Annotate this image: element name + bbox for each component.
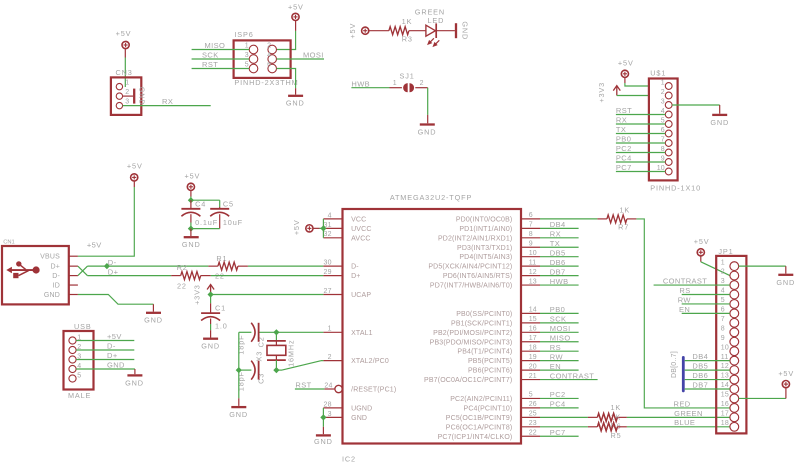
label PB0 (U$1)	[616, 135, 631, 144]
svg-text:X3: X3	[254, 351, 263, 362]
label RX (IC2)	[550, 230, 561, 239]
svg-text:4: 4	[267, 52, 271, 59]
wire net CONTRAST (JP1 pin 3)	[654, 284, 730, 286]
svg-text:30: 30	[324, 260, 332, 267]
svg-text:GND: GND	[710, 118, 729, 127]
ground symbol (CN1)	[144, 304, 163, 325]
svg-text:GND: GND	[201, 342, 220, 351]
junction (crystal/XTAL2)	[273, 367, 279, 373]
wire +3V3 to U$1 pin 2	[617, 95, 649, 97]
svg-text:PD3(INT3/TXD1): PD3(INT3/TXD1)	[457, 245, 512, 252]
label TX (IC2)	[550, 239, 560, 248]
label PC2 (IC2)	[550, 390, 566, 399]
svg-text:2: 2	[721, 269, 725, 276]
svg-text:PB0: PB0	[550, 305, 565, 314]
svg-text:18pF: 18pF	[237, 335, 246, 355]
IC2 pin 20 (PB6(PCINT6))	[468, 363, 540, 374]
IC2 pin 27 (UCAP)	[323, 288, 371, 299]
svg-text:VCC: VCC	[351, 216, 366, 223]
svg-text:22: 22	[177, 282, 187, 291]
ground symbol (ISP6)	[286, 88, 305, 107]
power +5V supply (IC2 VCC)	[292, 219, 320, 235]
resistor R6 zigzag overlay	[597, 413, 617, 421]
wire net HWB (to SJ1)	[351, 87, 402, 89]
svg-text:JP1: JP1	[718, 247, 733, 256]
crystal X3 16MHz	[254, 332, 295, 370]
svg-text:12: 12	[721, 363, 729, 370]
IC2 pin 12 (PD6(INT6/AIN5/RTS))	[443, 269, 540, 280]
wire net UCAP	[211, 294, 324, 296]
svg-text:7: 7	[529, 222, 533, 229]
IC2 pin 16 (PB2(PDI/MOSI/PCINT2))	[433, 326, 540, 337]
label BLUE	[674, 418, 695, 427]
wire +5V to C4/C5	[191, 197, 220, 208]
label DB7 (IC2)	[550, 267, 566, 276]
svg-text:MALE: MALE	[68, 391, 91, 400]
label D+	[108, 267, 119, 276]
svg-text:GND: GND	[107, 361, 125, 370]
svg-text:PC7: PC7	[550, 428, 566, 437]
label SCK	[202, 51, 219, 60]
IC2 pin 24 (/RESET(PC1)) with bubble	[324, 382, 396, 393]
label D-	[108, 258, 117, 267]
svg-text:2: 2	[125, 89, 129, 96]
svg-text:PC7(ICP1/INT4/CLKO): PC7(ICP1/INT4/CLKO)	[438, 434, 513, 441]
svg-text:PD4(INT5/AIN3): PD4(INT5/AIN3)	[459, 254, 512, 261]
wire ISP6 pin 6 to GND	[277, 69, 296, 89]
label EN (IC2)	[550, 362, 561, 371]
svg-text:18: 18	[529, 344, 537, 351]
svg-text:PD1(INT1/AIN0): PD1(INT1/AIN0)	[459, 226, 512, 233]
svg-text:IC2: IC2	[342, 455, 356, 464]
svg-text:PD6(INT6/AIN5/RTS): PD6(INT6/AIN5/RTS)	[443, 273, 512, 280]
wire D- (USB pin 2)	[76, 349, 134, 351]
wire net PC2 (U$1 pin 8)	[616, 152, 665, 154]
wire net RST (IC2 /RESET)	[295, 388, 325, 390]
IC2 pin 21 (PB7(OC0A/OC1C/PCINT7))	[424, 373, 540, 384]
IC2 pin 29 (D+)	[323, 269, 360, 280]
connector CN1 (USB)	[2, 240, 78, 305]
ground symbol (CN3 pin 2)	[123, 87, 147, 106]
wire net BLUE (to JP1 pin 18)	[627, 426, 730, 428]
label GND (USB)	[107, 361, 125, 370]
svg-text:GND: GND	[44, 292, 60, 299]
svg-text:MOSI: MOSI	[303, 51, 324, 60]
svg-text:15: 15	[529, 316, 537, 323]
IC2 pin 17 (PB3(PDO/MISO/PCINT3))	[430, 335, 540, 346]
label MISO	[205, 41, 226, 50]
label RST (U$1)	[616, 106, 632, 115]
svg-text:D+: D+	[108, 267, 119, 276]
IC2 pin 13 (PD7(INT7/HWB/AIN6/T0))	[430, 278, 540, 289]
svg-text:12: 12	[529, 269, 537, 276]
svg-text:1: 1	[125, 80, 129, 87]
wire net SCK (IC2)	[540, 322, 579, 324]
IC2 pin 22 (PC7(ICP1/INT4/CLKO))	[438, 429, 540, 440]
svg-text:CONTRAST: CONTRAST	[663, 276, 707, 285]
svg-text:1K: 1K	[402, 17, 413, 26]
svg-text:26: 26	[529, 401, 537, 408]
svg-text:SJ1: SJ1	[400, 71, 415, 80]
wire R3 to LED	[409, 30, 426, 32]
IC2 pin 26 (PC4(PCINT10))	[464, 401, 540, 412]
power +5V supply (CN3)	[116, 29, 132, 57]
label DB4 (JP1)	[692, 352, 708, 361]
svg-text:PC2: PC2	[550, 390, 566, 399]
label DB6 (IC2)	[550, 258, 566, 267]
wire U$1 pin 3 to GND	[672, 104, 720, 106]
connector CN3	[111, 68, 141, 115]
IC2 pin 30 (D-)	[323, 260, 359, 271]
wire net GREEN (to JP1 pin 17)	[627, 416, 730, 418]
IC2 pin 8 (PD2(INT2/AIN1/RXD1))	[438, 231, 540, 242]
label DB5 (JP1)	[692, 362, 708, 371]
svg-text:C1: C1	[215, 303, 226, 312]
svg-text:C5: C5	[223, 199, 234, 208]
ground symbol (USB MALE)	[125, 375, 144, 387]
wire net EN (JP1 pin 6)	[682, 312, 730, 314]
svg-text:CONTRAST: CONTRAST	[550, 371, 594, 380]
svg-text:29: 29	[324, 269, 332, 276]
svg-text:22: 22	[529, 429, 537, 436]
svg-text:DB6: DB6	[692, 371, 708, 380]
svg-text:7: 7	[721, 316, 725, 323]
IC2 pin 1 (XTAL1)	[323, 326, 372, 337]
resistor R5 zigzag overlay	[597, 423, 617, 431]
svg-text:+3V3: +3V3	[597, 82, 606, 103]
svg-text:PB2(PDI/MOSI/PCINT2): PB2(PDI/MOSI/PCINT2)	[433, 330, 512, 337]
svg-text:EN: EN	[550, 362, 561, 371]
svg-text:MOSI: MOSI	[550, 324, 571, 333]
svg-text:D-: D-	[351, 264, 359, 271]
wire XTAL2 net	[239, 361, 324, 370]
label RX (U$1)	[616, 116, 627, 125]
ground symbol (C1)	[201, 330, 220, 350]
svg-text:6: 6	[529, 212, 533, 219]
IC2 pin 14 (PB0(SS/PCINT0))	[456, 307, 540, 318]
svg-text:SCK: SCK	[202, 51, 219, 60]
svg-text:D-: D-	[108, 258, 117, 267]
svg-text:PC6(OC1A/PCINT8): PC6(OC1A/PCINT8)	[446, 424, 513, 431]
junction (C4 top)	[188, 197, 194, 203]
label PC4 (U$1)	[616, 154, 632, 163]
svg-text:PINHD-1X10: PINHD-1X10	[650, 184, 701, 193]
IC2 pin 3 (GND)	[323, 411, 367, 422]
label RW (JP1)	[678, 295, 692, 304]
svg-text:D+: D+	[351, 273, 360, 280]
wire net RS (JP1 pin 4)	[682, 294, 730, 296]
wire net RW (JP1 pin 5)	[682, 303, 730, 305]
svg-text:GND: GND	[418, 127, 437, 136]
label DB5 (IC2)	[550, 248, 566, 257]
svg-text:16: 16	[721, 401, 729, 408]
svg-text:11: 11	[721, 354, 729, 361]
wire C4/C5 bottoms to GND	[191, 223, 220, 229]
label D- (USB)	[107, 342, 116, 351]
svg-text:+5V: +5V	[185, 171, 201, 180]
svg-text:18: 18	[721, 420, 729, 427]
junction (C4 bottom)	[188, 226, 194, 232]
label DB6 (JP1)	[692, 371, 708, 380]
power +5V supply (ISP6)	[288, 2, 304, 31]
resistor R6 1K (labels partly hidden)	[588, 403, 627, 431]
wire net RST (ISP6)	[192, 68, 250, 70]
svg-text:5: 5	[529, 392, 533, 399]
wire net RX (IC2)	[540, 237, 579, 239]
svg-text:DB5: DB5	[550, 248, 566, 257]
wire bus line DB5 (JP1 pin 12)	[685, 369, 730, 371]
svg-text:XTAL1: XTAL1	[351, 330, 373, 337]
svg-text:+5V: +5V	[87, 241, 102, 250]
svg-text:PC7: PC7	[616, 163, 632, 172]
power +5V supply (JP1 pin 15)	[778, 369, 794, 399]
label PC7 (U$1)	[616, 163, 632, 172]
svg-text:GND: GND	[144, 316, 163, 325]
label PC2 (U$1)	[616, 144, 632, 153]
svg-text:+5V: +5V	[288, 2, 304, 11]
svg-text:25: 25	[529, 411, 537, 418]
svg-text:PB6(PCINT6): PB6(PCINT6)	[468, 368, 512, 375]
wire net RX (U$1 pin 5)	[616, 123, 665, 125]
svg-text:DB4: DB4	[550, 220, 566, 229]
wire JP1 pin 15 to +5V	[739, 397, 786, 399]
svg-text:UGND: UGND	[351, 405, 372, 412]
svg-text:18pF: 18pF	[237, 371, 246, 391]
svg-text:PC4: PC4	[550, 400, 566, 409]
svg-text:8: 8	[721, 325, 725, 332]
power +5V supply (JP1 top)	[694, 237, 710, 262]
wire IC2 pin 6 to R7	[540, 218, 597, 220]
svg-text:11: 11	[529, 259, 537, 266]
svg-text:GND: GND	[286, 99, 305, 108]
ground symbol (LED, rotated)	[456, 21, 470, 40]
svg-text:HWB: HWB	[550, 277, 569, 286]
svg-text:R1: R1	[216, 254, 227, 263]
wire net HWB (IC2)	[540, 284, 579, 286]
IC2 pin 4 (VCC)	[323, 212, 366, 223]
svg-text:RED: RED	[674, 399, 691, 408]
wire LED to GND	[436, 30, 455, 32]
svg-text:RX: RX	[162, 97, 173, 106]
svg-text:DB7: DB7	[692, 380, 708, 389]
IC2 pin 18 (PB4(T1/PCINT4))	[457, 344, 540, 355]
svg-text:GND: GND	[138, 87, 147, 106]
wire net RED (R7 to JP1 pin 16)	[636, 219, 730, 408]
svg-text:XTAL2/PC0: XTAL2/PC0	[351, 358, 389, 365]
connector U$1 (PINHD-1X10)	[649, 68, 701, 192]
svg-text:BLUE: BLUE	[674, 418, 695, 427]
wire net SCK	[192, 58, 250, 60]
svg-text:DB6: DB6	[550, 258, 566, 267]
label RW (IC2)	[550, 352, 564, 361]
svg-text:RS: RS	[679, 286, 690, 295]
IC2 pin 25 (PC5(OC1B/PCINT9))	[446, 411, 540, 422]
power +5V supply (LED circuit)	[348, 23, 389, 39]
svg-text:3: 3	[125, 99, 129, 106]
junction (C3 left)	[236, 367, 242, 373]
capacitor C1 1.0	[201, 295, 228, 331]
svg-text:5: 5	[77, 373, 81, 380]
wire net PC4 (IC2)	[540, 407, 579, 409]
label PC7 (IC2)	[550, 428, 566, 437]
wire net D+ (lower) with R2	[87, 275, 323, 277]
svg-text:GND: GND	[182, 240, 201, 249]
resistor R7 1K	[597, 206, 636, 232]
svg-text:DB4: DB4	[692, 352, 708, 361]
IC2 pin 11 (PD5(XCK/AIN4/PCINT12))	[428, 259, 540, 270]
svg-text:1: 1	[661, 80, 665, 87]
svg-text:ISP6: ISP6	[234, 30, 253, 39]
svg-text:10: 10	[529, 250, 537, 257]
junction on D- net	[104, 263, 110, 269]
resistor R2 22	[171, 263, 211, 291]
svg-text:PC2(AIN2/PCIN11): PC2(AIN2/PCIN11)	[450, 396, 512, 403]
IC2 pin 5 (PC2(AIN2/PCIN11))	[450, 392, 540, 403]
wire net RS (IC2)	[540, 350, 579, 352]
svg-text:MISO: MISO	[205, 41, 226, 50]
svg-text:GND: GND	[125, 378, 144, 387]
wire JP1 pin 1 to GND	[739, 265, 786, 267]
svg-text:14: 14	[529, 307, 537, 314]
svg-text:PB3(PDO/MISO/PCINT3): PB3(PDO/MISO/PCINT3)	[430, 339, 513, 346]
wire net PC2 (IC2)	[540, 397, 579, 399]
svg-text:C4: C4	[195, 199, 206, 208]
svg-text:+5V: +5V	[348, 23, 357, 39]
IC2 ATMEGA32U2-TQFP body	[342, 193, 521, 464]
svg-text:3: 3	[721, 278, 725, 285]
capacitor C4 0.1uF	[181, 199, 218, 226]
svg-text:RST: RST	[202, 60, 218, 69]
svg-text:10: 10	[721, 344, 729, 351]
svg-text:D+: D+	[50, 264, 60, 271]
wire CN1 GND to ground	[78, 295, 153, 305]
power +3V3 supply (U$1)	[597, 82, 620, 103]
svg-text:D-: D-	[107, 342, 116, 351]
wire +5V to U$1 pin 1	[625, 83, 649, 86]
wire +5V to ISP6 pin 2	[277, 31, 296, 50]
wire IC2 pin 23 to R5	[540, 426, 588, 428]
wire +5V (USB pin 1)	[76, 340, 134, 342]
svg-text:3: 3	[245, 52, 249, 59]
svg-text:23: 23	[529, 420, 537, 427]
label MOSI	[303, 51, 324, 60]
wire crystal ground rail	[238, 332, 240, 398]
wire net DB5 (IC2)	[540, 256, 579, 258]
wire net RX (CN3 pin 3)	[123, 105, 211, 107]
svg-text:6: 6	[721, 307, 725, 314]
wire crossing D+/D- (CN1)	[78, 266, 88, 275]
junction (UCAP/C1)	[208, 291, 214, 297]
svg-text:PB7(OC0A/OC1C/PCINT7): PB7(OC0A/OC1C/PCINT7)	[424, 377, 512, 384]
svg-text:PINHD-2X3THM: PINHD-2X3THM	[234, 78, 298, 87]
svg-text:1: 1	[393, 80, 397, 87]
svg-text:GND: GND	[314, 437, 333, 446]
label TX (U$1)	[616, 125, 626, 134]
IC2 pin 2 (XTAL2/PC0)	[323, 354, 388, 365]
svg-text:1K: 1K	[619, 206, 630, 215]
header USB (MALE)	[64, 322, 94, 400]
svg-text:PD0(INT0/OC0B): PD0(INT0/OC0B)	[456, 216, 513, 223]
wire net DB7 (IC2)	[540, 275, 579, 277]
svg-text:MISO: MISO	[550, 333, 571, 342]
svg-text:1K: 1K	[611, 403, 622, 412]
svg-text:D-: D-	[52, 273, 60, 280]
label RS (IC2)	[550, 343, 561, 352]
svg-text:U$1: U$1	[650, 68, 666, 77]
svg-text:2: 2	[420, 80, 424, 87]
ground symbol (IC2)	[314, 427, 333, 446]
wire net TX (IC2)	[540, 246, 579, 248]
svg-text:DB5: DB5	[692, 362, 708, 371]
connector ISP6 (PINHD-2X3THM)	[234, 30, 299, 87]
svg-text:2: 2	[328, 354, 332, 361]
svg-text:+5V: +5V	[778, 369, 794, 378]
ground symbol (SJ1)	[418, 125, 437, 137]
wire net PB0 (U$1 pin 7)	[616, 142, 665, 144]
connector JP1	[716, 247, 746, 434]
svg-text:R7: R7	[618, 223, 629, 232]
wire net CONTRAST (IC2)	[540, 379, 598, 381]
label RST (IC2)	[295, 380, 311, 389]
label CONTRAST (JP1)	[663, 276, 707, 285]
svg-text:PD7(INT7/HWB/AIN6/T0): PD7(INT7/HWB/AIN6/T0)	[430, 283, 513, 290]
svg-text:RST: RST	[616, 106, 632, 115]
junction (UVCC)	[320, 225, 326, 231]
IC2 pin 6 (PD0(INT0/OC0B))	[456, 212, 540, 223]
label EN (JP1)	[679, 305, 690, 314]
svg-text:27: 27	[324, 288, 332, 295]
svg-text:1.0: 1.0	[215, 321, 228, 330]
svg-text:19: 19	[529, 354, 537, 361]
svg-text:PC5(OC1B/PCINT9): PC5(OC1B/PCINT9)	[446, 415, 513, 422]
label HWB	[351, 79, 370, 88]
svg-text:HWB: HWB	[351, 79, 370, 88]
svg-text:GND: GND	[229, 410, 248, 419]
svg-text:UCAP: UCAP	[351, 292, 371, 299]
wire +5V to JP1 pin 2	[701, 262, 730, 276]
label RST	[202, 60, 218, 69]
svg-text:24: 24	[324, 382, 332, 389]
svg-text:PB0(SS/PCINT0): PB0(SS/PCINT0)	[456, 311, 512, 318]
bus DB[0..7]	[671, 351, 683, 391]
svg-text:4: 4	[328, 212, 332, 219]
wire bus line DB6 (JP1 pin 13)	[685, 379, 730, 381]
svg-text:DB7: DB7	[550, 267, 566, 276]
IC2 pin 23 (PC6(OC1A/PCINT8))	[446, 420, 540, 431]
capacitor C5 10uF	[210, 199, 243, 228]
label RS (JP1)	[679, 286, 690, 295]
svg-text:17: 17	[721, 410, 729, 417]
svg-text:PD5(XCK/AIN4/PCINT12): PD5(XCK/AIN4/PCINT12)	[428, 264, 512, 271]
svg-text:6: 6	[267, 62, 271, 69]
label D+ (USB)	[107, 351, 118, 360]
wire net PB0 (IC2)	[540, 312, 579, 314]
wire net TX (U$1 pin 6)	[616, 133, 665, 135]
wire SJ1 pin 2 to GND	[415, 88, 427, 124]
IC2 pin 15 (PB1(SCK/PCINT1))	[451, 316, 540, 327]
svg-text:ID: ID	[53, 282, 60, 289]
svg-text:GND: GND	[776, 278, 795, 287]
svg-text:PC4: PC4	[616, 154, 632, 163]
svg-text:RX: RX	[550, 230, 561, 239]
svg-text:14: 14	[721, 382, 729, 389]
label MOSI (IC2)	[550, 324, 571, 333]
wire net D- (upper) with R1	[87, 265, 323, 267]
svg-text:VBUS: VBUS	[40, 254, 60, 261]
svg-text:TX: TX	[616, 125, 626, 134]
capacitor C2 18pF	[237, 323, 266, 355]
svg-text:RST: RST	[295, 380, 311, 389]
